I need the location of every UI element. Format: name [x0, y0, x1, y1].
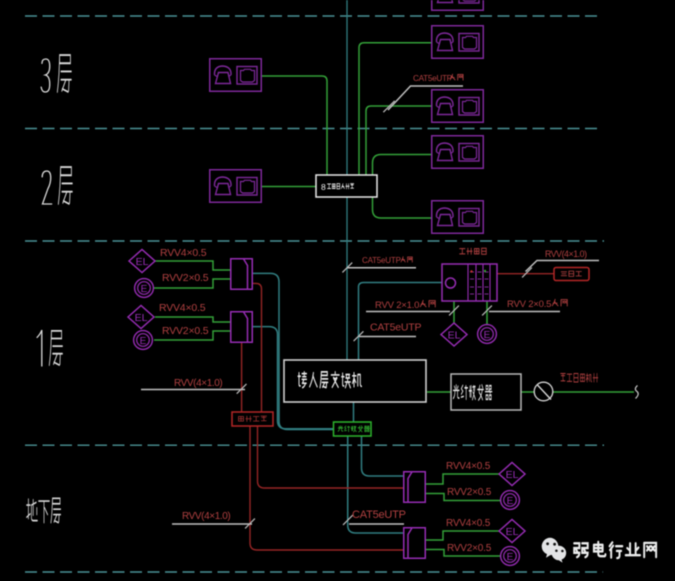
junction box basement lower	[404, 528, 426, 559]
wire red power supply to basement box2	[250, 426, 403, 550]
svg-text:RVV2×0.5: RVV2×0.5	[162, 325, 209, 337]
svg-text:RVV4×0.5: RVV4×0.5	[159, 302, 206, 314]
svg-text:RVV(4×1.0): RVV(4×1.0)	[545, 249, 587, 259]
optical splitter symbol	[534, 382, 553, 401]
leader RVV(4x1.0) 1F	[141, 389, 245, 391]
wire switch to fiber transceiver	[427, 391, 451, 393]
wire teal from 1F outlet box 1 to fiber box	[253, 273, 334, 429]
wire door unit to EL5	[453, 301, 455, 323]
leader RVV 2x0.5	[489, 311, 560, 313]
outlet box roof (cut)	[432, 0, 484, 10]
wire 3F right outlet A to distributor	[359, 43, 431, 175]
outlet box 3F left	[210, 59, 262, 92]
wire break mark	[635, 386, 638, 399]
wire teal switch to fiber converter box	[353, 402, 355, 423]
access layer switch box	[284, 360, 426, 402]
floor line 1F top	[25, 240, 604, 242]
label CAT5eUTP riser	[362, 256, 412, 265]
floor line 3F top	[25, 15, 602, 17]
svg-text:CAT5eUTP: CAT5eUTP	[413, 74, 453, 83]
svg-text:CAT5eUTP: CAT5eUTP	[370, 322, 421, 334]
wire door unit to E5	[486, 301, 488, 325]
socket E2	[134, 331, 153, 350]
fiber transceiver box	[451, 374, 521, 410]
wire 3F left outlet to distributor	[262, 76, 327, 175]
wire teal from 1F outlet box 2 to fiber box	[253, 327, 334, 429]
wire red power supply to basement box1	[258, 426, 404, 488]
socket E4	[501, 547, 520, 566]
power supply box	[232, 412, 273, 426]
floor distributor 8-port box	[316, 175, 377, 197]
floor label 2F	[42, 167, 72, 204]
svg-text:CAT5eUTP: CAT5eUTP	[362, 256, 401, 265]
svg-text:RVV2×0.5: RVV2×0.5	[447, 487, 492, 498]
label CAT5eUTP top right	[413, 74, 463, 83]
floor line basement top	[25, 444, 604, 446]
outlet box 2F right A	[432, 136, 484, 169]
lamp EL5 below door unit	[441, 323, 467, 346]
svg-text:RVV(4×1.0): RVV(4×1.0)	[182, 511, 230, 522]
wire teal riser CAT5e backbone	[346, 0, 348, 360]
outlet box 2F right B	[432, 201, 484, 234]
floor line 2F top	[25, 128, 602, 130]
leader CAT5eUTP riser label	[348, 267, 417, 269]
door entry unit	[442, 264, 497, 301]
junction box basement upper	[404, 472, 426, 503]
label to fire control room	[561, 374, 566, 381]
svg-text:RVV 2×0.5: RVV 2×0.5	[507, 299, 551, 310]
wire teal branch to door unit	[359, 283, 443, 361]
svg-text:RVV 2×1.0: RVV 2×1.0	[375, 300, 419, 311]
socket E1	[135, 279, 154, 298]
svg-text:RVV4×0.5: RVV4×0.5	[446, 461, 491, 472]
leader CAT5eUTP basement	[349, 523, 404, 525]
wire red 1F box2 to power supply	[241, 343, 243, 412]
svg-text:RVV4×0.5: RVV4×0.5	[446, 518, 491, 529]
floor label basement	[27, 498, 61, 522]
lamp EL4	[499, 520, 525, 543]
wire basement box1 to EL3	[425, 474, 499, 484]
leader RVV 2x1.0	[366, 311, 450, 313]
floor label 1F	[37, 330, 62, 366]
socket E5 below door unit	[478, 325, 497, 344]
wire teal fiber box down to basement outlet 2	[348, 436, 403, 533]
outlet box 3F right B	[432, 90, 484, 123]
leader CAT5eUTP top right	[388, 86, 463, 110]
wire red 1F box1 to power supply	[253, 283, 262, 412]
wire splitter to fire control room	[553, 391, 634, 393]
lamp EL2	[128, 306, 154, 329]
svg-text:8: 8	[321, 182, 326, 192]
wire E2 to 1F box2	[154, 331, 230, 340]
electric lock box	[554, 268, 589, 281]
wire 2F left outlet to distributor	[262, 186, 316, 188]
svg-text:RVV4×0.5: RVV4×0.5	[160, 247, 207, 259]
outlet box 2F left	[210, 170, 262, 203]
wire EL2 to 1F box2	[155, 317, 230, 322]
svg-text:RVV2×0.5: RVV2×0.5	[447, 543, 492, 554]
wire 2F right outlet B to distributor	[373, 197, 432, 218]
leader CAT5eUTP mid	[359, 336, 416, 338]
svg-text:RVV(4×1.0): RVV(4×1.0)	[174, 378, 222, 389]
wire basement box2 to EL4	[425, 531, 499, 540]
wire basement box2 to E4	[425, 550, 500, 557]
wire EL1 to 1F box1	[155, 261, 230, 270]
lamp EL1	[129, 250, 155, 273]
label RVV 2x1.0	[375, 300, 435, 311]
wire red door unit to lock box	[497, 273, 554, 275]
lamp EL3	[499, 463, 525, 486]
wire teal fiber box down to basement outlet 1	[362, 436, 404, 476]
fiber converter small green box	[334, 422, 372, 436]
watermark site name	[574, 542, 656, 558]
wire basement box1 to E3	[425, 494, 500, 501]
leader RVV(4x1.0) basement	[172, 523, 252, 525]
label door unit	[460, 249, 465, 254]
floor label 3F	[41, 55, 71, 92]
junction box 1F lower	[231, 312, 253, 343]
wire 2F right outlet A to distributor	[373, 155, 432, 176]
junction box 1F upper	[231, 259, 253, 290]
leader RVV(4x1.0) door lock	[526, 261, 600, 272]
label RVV 2x0.5	[507, 299, 567, 310]
wire E1 to 1F box1	[154, 279, 230, 288]
wire 3F right outlet B to distributor	[366, 106, 431, 175]
floor line bottom	[25, 571, 603, 573]
watermark wechat logo	[542, 538, 566, 563]
svg-text:RVV2×0.5: RVV2×0.5	[162, 272, 209, 284]
socket E3	[501, 491, 520, 510]
outlet box 3F right A	[432, 26, 484, 59]
wire fiber transceiver to splitter	[521, 391, 534, 393]
svg-text:CAT5eUTP: CAT5eUTP	[352, 509, 406, 521]
